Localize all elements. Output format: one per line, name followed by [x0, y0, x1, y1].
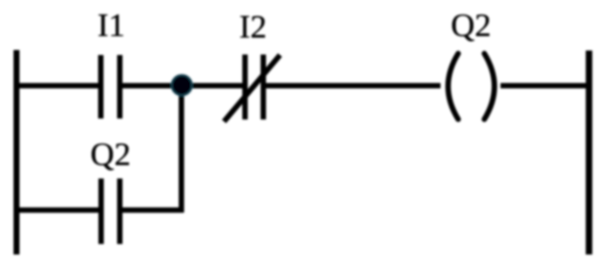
wire: left rail to contact Q2 (bottom rung): [14, 207, 99, 212]
contact I2 (normally closed): [224, 55, 280, 122]
wire: vertical branch from node down to bottom rung: [179, 86, 184, 213]
svg-text:Q2: Q2: [451, 8, 491, 44]
svg-text:I2: I2: [239, 10, 267, 46]
svg-text:I1: I1: [98, 8, 126, 44]
contact Q2 (normally open, bottom rung): [101, 179, 120, 245]
node: junction dot: [172, 75, 192, 95]
svg-text:Q2: Q2: [90, 137, 130, 173]
wire: left rail to contact I1: [14, 83, 99, 88]
coil Q2: [448, 54, 494, 120]
wire: contact I1 to contact I2 through node: [123, 83, 243, 88]
right power rail: [586, 51, 593, 255]
wire: coil Q2 to right rail: [501, 83, 590, 88]
left power rail: [14, 50, 20, 255]
contact I1 (normally open): [101, 55, 120, 119]
wire: contact I2 to coil Q2: [266, 83, 441, 88]
wire: contact Q2 to vertical branch (bottom rung): [122, 207, 184, 212]
